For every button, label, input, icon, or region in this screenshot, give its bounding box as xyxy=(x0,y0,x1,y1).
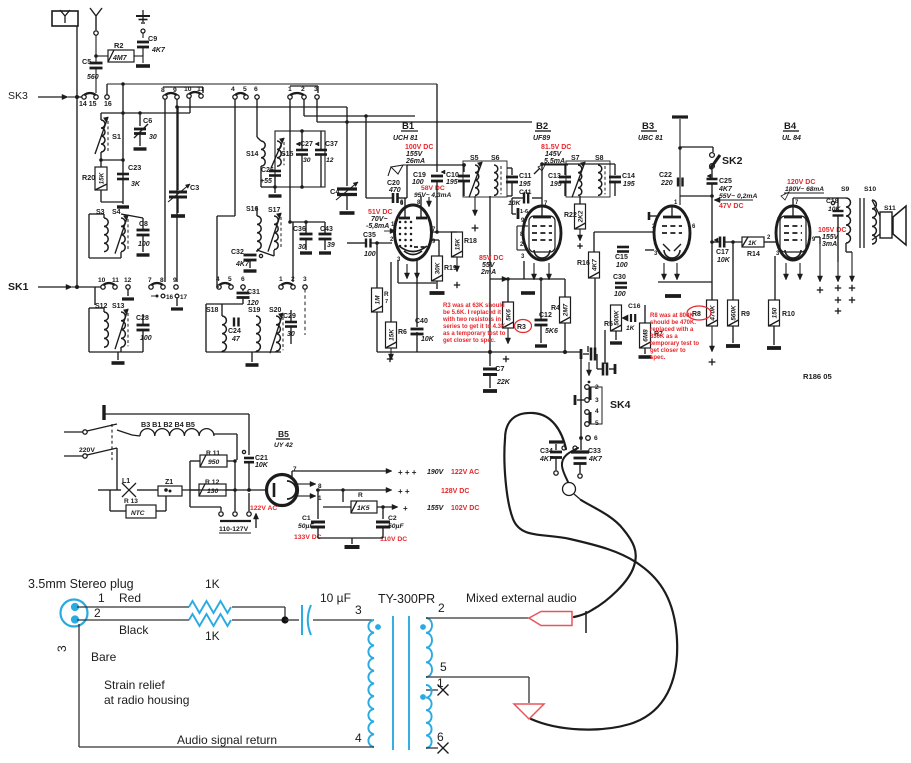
plug left down wire xyxy=(78,624,80,747)
capacitor C23 3K xyxy=(117,173,129,176)
svg-text:95V~ 4,3mA: 95V~ 4,3mA xyxy=(414,192,451,199)
svg-text:R20: R20 xyxy=(82,173,95,182)
svg-text:R3 was at 63K should: R3 was at 63K should xyxy=(443,303,505,309)
svg-text:470: 470 xyxy=(388,187,401,194)
wire pin2 xyxy=(77,619,189,621)
coil S1 xyxy=(100,113,102,120)
power ground xyxy=(318,537,383,539)
ground under B3 xyxy=(665,294,681,298)
svg-text:S11: S11 xyxy=(884,205,896,212)
mains plug bar xyxy=(102,405,105,420)
svg-text:145V: 145V xyxy=(545,151,563,158)
wire B2 plate top xyxy=(541,164,543,206)
wire y165 xyxy=(407,164,464,166)
resistor R12 130 xyxy=(199,484,226,496)
SK4 contact 6 xyxy=(579,436,583,440)
ground under C23 xyxy=(122,202,124,204)
svg-text:102V DC: 102V DC xyxy=(451,505,479,512)
svg-text:1K: 1K xyxy=(205,629,220,643)
tube B3 xyxy=(654,206,690,260)
antenna symbol A1 xyxy=(90,8,102,30)
svg-text:110V DC: 110V DC xyxy=(380,536,407,543)
ground under B2 xyxy=(521,291,535,295)
wire x165 down xyxy=(164,99,166,282)
svg-text:C24: C24 xyxy=(228,328,241,335)
svg-text:SK1: SK1 xyxy=(8,281,29,293)
resistor R11 950 xyxy=(200,455,227,467)
svg-text:5K6: 5K6 xyxy=(545,328,558,335)
SK4 arrow small xyxy=(588,362,590,372)
wire contact16 to top bus xyxy=(106,84,108,95)
resistor R19 33K xyxy=(432,256,443,281)
svg-text:3: 3 xyxy=(595,397,599,404)
contacts 16 17 xyxy=(161,294,165,298)
ground under S13 xyxy=(117,352,119,360)
svg-text:C33: C33 xyxy=(588,448,601,455)
svg-text:C41: C41 xyxy=(519,189,532,196)
B5 outputs xyxy=(298,483,312,485)
svg-text:195: 195 xyxy=(623,181,635,188)
capacitor C9 4K7 xyxy=(141,29,145,33)
svg-text:+: + xyxy=(403,504,408,513)
svg-text:1K: 1K xyxy=(205,577,220,591)
svg-text:C1: C1 xyxy=(302,515,311,522)
tube B1 xyxy=(395,205,432,260)
svg-text:195: 195 xyxy=(446,179,458,186)
svg-text:S1: S1 xyxy=(112,132,121,141)
svg-text:39: 39 xyxy=(327,242,335,249)
antenna terminal box xyxy=(52,11,78,26)
svg-text:R6: R6 xyxy=(398,329,407,336)
svg-text:15K: 15K xyxy=(455,238,462,250)
svg-text:330K as a: 330K as a xyxy=(650,334,678,340)
switch SK4 cap2 xyxy=(602,363,605,376)
svg-text:C6: C6 xyxy=(143,116,152,125)
svg-text:4M7: 4M7 xyxy=(112,55,128,62)
svg-text:at radio housing: at radio housing xyxy=(104,693,189,707)
svg-text:C30: C30 xyxy=(613,274,626,281)
microphone symbol xyxy=(563,483,576,496)
resistor R9 560K xyxy=(728,300,739,326)
transformer primary coil xyxy=(368,620,374,747)
svg-text:5: 5 xyxy=(243,86,247,93)
wire S6 down long xyxy=(489,196,491,352)
svg-text:C34: C34 xyxy=(540,448,553,455)
wire B1 plate top xyxy=(406,198,408,204)
svg-text:TY-300PR: TY-300PR xyxy=(378,592,435,606)
svg-text:temporary test to: temporary test to xyxy=(650,341,699,347)
svg-text:1M: 1M xyxy=(375,295,382,305)
top bus y84 xyxy=(107,83,437,85)
tube B1 dot grid xyxy=(399,221,402,224)
svg-text:12: 12 xyxy=(326,157,334,164)
contact 3 dashed wire xyxy=(303,285,307,289)
svg-text:560: 560 xyxy=(87,74,99,81)
wire from contacts 456 down xyxy=(234,99,236,216)
svg-text:8: 8 xyxy=(161,87,165,94)
svg-text:R 12: R 12 xyxy=(205,479,220,486)
capacitor C30 100 xyxy=(615,282,627,285)
svg-text:C16: C16 xyxy=(628,303,641,310)
svg-text:C15: C15 xyxy=(615,254,628,261)
svg-text:S13: S13 xyxy=(112,303,125,310)
rail ++ 128V xyxy=(316,489,370,491)
resistor R22 2K2 xyxy=(575,204,586,229)
svg-text:4K7: 4K7 xyxy=(592,259,599,272)
svg-text:1: 1 xyxy=(288,86,292,93)
svg-text:7: 7 xyxy=(293,466,297,473)
svg-text:S20: S20 xyxy=(269,307,282,314)
svg-text:C32: C32 xyxy=(231,249,244,256)
svg-text:get closer to spec.: get closer to spec. xyxy=(443,338,496,344)
svg-text:5: 5 xyxy=(228,276,232,283)
svg-text:6: 6 xyxy=(594,435,598,442)
svg-text:S9: S9 xyxy=(841,186,850,193)
capacitor C29 30 xyxy=(285,321,297,324)
svg-text:R3: R3 xyxy=(517,324,526,331)
svg-text:9: 9 xyxy=(173,277,177,284)
resistor R7 6M8 xyxy=(640,323,651,348)
svg-text:C35: C35 xyxy=(363,232,376,239)
svg-text:85V DC: 85V DC xyxy=(479,255,504,262)
svg-text:R10: R10 xyxy=(782,311,795,318)
right arrows down xyxy=(819,244,821,278)
svg-text:S14: S14 xyxy=(246,151,259,158)
wire B2 cathode bus y279 xyxy=(490,278,565,280)
svg-text:2K2: 2K2 xyxy=(578,210,585,223)
resistor R8 470K xyxy=(707,300,718,326)
svg-text:5K6: 5K6 xyxy=(506,309,513,321)
rectifier tube B5 xyxy=(267,475,298,506)
SK4 bracket xyxy=(589,387,602,424)
tube B2 xyxy=(523,206,561,260)
wire y113 bus xyxy=(101,112,190,114)
svg-text:R: R xyxy=(358,492,363,499)
pointer wedge B1 xyxy=(391,165,403,174)
junction dot xyxy=(284,607,286,620)
svg-text:55V: 55V xyxy=(482,262,496,269)
svg-text:R18: R18 xyxy=(464,238,477,245)
svg-text:4K7: 4K7 xyxy=(235,261,250,268)
capacitor C2 50uF xyxy=(382,507,384,519)
capacitor C21 10K xyxy=(248,414,250,455)
wire y122 bus to B1 grid xyxy=(317,121,532,123)
svg-text:with two resistors in: with two resistors in xyxy=(442,317,501,323)
tube B1 heater arrows xyxy=(406,264,408,275)
wire y116 mid bus xyxy=(304,115,415,117)
svg-text:120: 120 xyxy=(247,300,259,307)
wire bus x437 down xyxy=(436,84,438,165)
wire S5 bottom arrow xyxy=(474,196,476,212)
capacitor C12 5K6 xyxy=(535,319,548,322)
svg-text:10K: 10K xyxy=(421,336,435,343)
svg-text:R4: R4 xyxy=(551,305,560,312)
svg-text:should be 470K.: should be 470K. xyxy=(650,320,696,326)
switch contacts 14 15 xyxy=(77,96,82,98)
speaker xyxy=(880,212,892,238)
svg-text:C36: C36 xyxy=(293,226,306,233)
svg-text:3: 3 xyxy=(355,603,362,617)
capacitor C15 100 xyxy=(617,246,629,249)
svg-text:1K5: 1K5 xyxy=(357,505,370,512)
svg-text:17: 17 xyxy=(180,294,188,301)
svg-text:14 15: 14 15 xyxy=(79,101,97,108)
red ground triangle xyxy=(514,704,544,719)
svg-text:C19: C19 xyxy=(413,172,426,179)
svg-text:Bare: Bare xyxy=(91,650,117,664)
svg-text:S17: S17 xyxy=(268,207,281,214)
svg-text:15K: 15K xyxy=(389,329,396,341)
svg-text:100: 100 xyxy=(616,262,628,269)
tube B1 cathode arcs xyxy=(399,246,427,252)
wire B3 bottom to R8 xyxy=(658,281,712,283)
svg-text:15K: 15K xyxy=(99,172,106,184)
svg-text:16: 16 xyxy=(166,294,174,301)
svg-text:10K: 10K xyxy=(508,200,522,207)
svg-text:6: 6 xyxy=(241,276,245,283)
svg-text:C11: C11 xyxy=(519,173,532,180)
svg-text:7: 7 xyxy=(385,299,388,305)
svg-text:58V DC: 58V DC xyxy=(421,185,445,192)
svg-text:NTC: NTC xyxy=(131,510,145,517)
resistor R6 15K xyxy=(386,322,397,348)
svg-text:C31: C31 xyxy=(247,289,260,296)
wire left edge x352 xyxy=(347,242,352,244)
svg-text:C22: C22 xyxy=(659,172,672,179)
capacitor C5 560 xyxy=(90,62,103,65)
black tick xyxy=(585,611,587,633)
svg-text:SK2: SK2 xyxy=(722,155,743,167)
svg-text:+ + +: + + + xyxy=(398,468,417,477)
svg-text:R2: R2 xyxy=(114,41,123,50)
svg-text:spec.: spec. xyxy=(650,355,666,361)
wire antenna to C5 xyxy=(95,35,97,62)
svg-text:R: R xyxy=(384,291,389,298)
wire pin1 xyxy=(77,606,189,608)
capacitor C31 120 xyxy=(242,289,244,291)
svg-text:100: 100 xyxy=(614,291,626,298)
svg-text:S18: S18 xyxy=(206,307,219,314)
svg-text:UBC 81: UBC 81 xyxy=(638,135,663,142)
tube B4 heater arrows xyxy=(785,263,787,276)
svg-text:UF89: UF89 xyxy=(533,135,550,142)
wire R1K5 to ++ rail xyxy=(342,490,344,502)
variable capacitor C3 xyxy=(177,107,179,190)
capacitor C34 4K7 xyxy=(549,440,563,443)
svg-text:C21: C21 xyxy=(255,455,268,462)
svg-text:1K: 1K xyxy=(748,240,758,247)
capacitor C6 30 variable xyxy=(139,113,141,126)
svg-text:+55: +55 xyxy=(260,178,272,185)
speaker coil S11 xyxy=(872,200,876,244)
svg-text:3.5mm Stereo plug: 3.5mm Stereo plug xyxy=(28,577,134,591)
svg-text:S4: S4 xyxy=(112,209,121,216)
svg-text:C10: C10 xyxy=(446,172,459,179)
wire B1 cathode to C40 xyxy=(416,260,418,310)
svg-text:950: 950 xyxy=(208,459,220,466)
svg-text:Audio signal return: Audio signal return xyxy=(177,733,277,747)
wire B3 to R16 top xyxy=(594,231,654,233)
svg-text:Mixed external audio: Mixed external audio xyxy=(466,591,577,605)
svg-text:C3: C3 xyxy=(190,183,199,192)
tube B3 grid bar left xyxy=(648,212,651,220)
resistor R20 15K xyxy=(100,160,102,167)
svg-text:4K7: 4K7 xyxy=(588,456,603,463)
pointer wedge B4 xyxy=(781,192,789,200)
svg-text:560K: 560K xyxy=(731,305,738,321)
capacitor C24 47 xyxy=(233,318,235,327)
svg-text:UY 42: UY 42 xyxy=(274,442,293,449)
wire R9 feed xyxy=(732,242,734,300)
wire to C36 C43 tops xyxy=(290,221,325,223)
svg-text:C37: C37 xyxy=(325,141,338,148)
svg-text:S6: S6 xyxy=(491,155,500,162)
wire SK2 down to R8 node xyxy=(711,184,713,300)
svg-text:Red: Red xyxy=(119,591,141,605)
svg-text:2mA: 2mA xyxy=(480,269,496,276)
resistor R4 2M7 xyxy=(560,297,571,323)
svg-text:R 13: R 13 xyxy=(124,498,138,505)
contact 16 xyxy=(105,95,109,99)
svg-text:R186 05: R186 05 xyxy=(803,372,832,381)
svg-text:C5: C5 xyxy=(82,57,91,66)
IF can S5 S6 box xyxy=(463,161,507,197)
wire x293 down xyxy=(292,222,294,282)
svg-text:2: 2 xyxy=(438,601,445,615)
svg-text:2: 2 xyxy=(291,276,295,283)
svg-text:4K7: 4K7 xyxy=(539,456,554,463)
svg-text:3: 3 xyxy=(303,276,307,283)
resistor R14 1K xyxy=(742,237,764,247)
SK4 contacts xyxy=(585,385,590,390)
tube B1 dash row xyxy=(414,246,430,248)
svg-text:6M8: 6M8 xyxy=(643,329,650,342)
B3 plate cap bar xyxy=(672,115,688,118)
svg-text:UL 84: UL 84 xyxy=(782,135,801,142)
mains switch xyxy=(83,430,87,434)
svg-text:replaced with a: replaced with a xyxy=(650,327,694,333)
svg-text:S15: S15 xyxy=(281,151,294,158)
svg-text:4: 4 xyxy=(231,86,235,93)
svg-text:180V~ 68mA: 180V~ 68mA xyxy=(785,186,824,193)
tube B2 grid rect xyxy=(516,226,518,250)
svg-text:30: 30 xyxy=(149,134,157,141)
ground under S19 xyxy=(251,352,253,362)
wire x123 down xyxy=(122,84,124,113)
svg-text:R5: R5 xyxy=(604,321,613,328)
svg-text:155V: 155V xyxy=(427,505,445,512)
svg-text:47V DC: 47V DC xyxy=(719,203,744,210)
svg-text:R16: R16 xyxy=(577,260,590,267)
svg-text:B3 B1 B2 B4 B5: B3 B1 B2 B4 B5 xyxy=(141,420,195,429)
svg-text:10K: 10K xyxy=(717,257,731,264)
svg-text:1: 1 xyxy=(98,591,105,605)
svg-text:220: 220 xyxy=(660,180,673,187)
IF transformer S7 S8 box xyxy=(566,161,610,197)
svg-text:S8: S8 xyxy=(595,155,604,162)
svg-text:100V DC: 100V DC xyxy=(405,144,433,151)
svg-text:100: 100 xyxy=(364,251,376,258)
resistor R1 1M xyxy=(376,243,378,288)
resistor R 1K5 xyxy=(351,501,377,513)
transformer core xyxy=(392,616,394,750)
tube B1 anode bars xyxy=(399,217,410,220)
svg-text:1: 1 xyxy=(279,276,283,283)
wire pin5 to ground xyxy=(426,676,529,678)
svg-text:Z1: Z1 xyxy=(165,479,173,486)
svg-text:22K: 22K xyxy=(496,379,511,386)
svg-text:3: 3 xyxy=(55,645,69,652)
svg-text:50µF: 50µF xyxy=(298,523,314,530)
wire B4 plate to S9 xyxy=(792,198,794,206)
capacitor C11 195 xyxy=(507,167,512,169)
capacitor C1 50uF xyxy=(317,490,319,519)
node S1 bottom xyxy=(101,159,123,161)
svg-text:R 11: R 11 xyxy=(206,450,220,457)
primary bottom connect xyxy=(377,749,379,751)
svg-text:3mA: 3mA xyxy=(822,241,837,248)
svg-text:12: 12 xyxy=(124,277,132,284)
svg-text:S7: S7 xyxy=(571,155,580,162)
label 110-127V xyxy=(220,520,251,522)
svg-text:500K: 500K xyxy=(614,310,621,326)
svg-text:1K: 1K xyxy=(626,325,636,332)
svg-text:S19: S19 xyxy=(248,307,261,314)
svg-text:100: 100 xyxy=(138,241,150,248)
svg-text:C9: C9 xyxy=(148,34,157,43)
svg-text:122V AC: 122V AC xyxy=(250,505,277,512)
svg-text:as a temporary test to: as a temporary test to xyxy=(443,331,506,337)
switch SK2 xyxy=(710,153,715,158)
wire x366 from y116 xyxy=(365,116,367,198)
svg-text:C29: C29 xyxy=(283,313,296,320)
svg-text:4: 4 xyxy=(595,408,599,415)
svg-text:122V AC: 122V AC xyxy=(451,469,479,476)
wires from 123 down xyxy=(303,99,305,116)
svg-text:50µF: 50µF xyxy=(388,523,404,530)
wire B1 pin3 down xyxy=(397,260,399,283)
wire y107 bus xyxy=(176,99,178,107)
svg-text:3K: 3K xyxy=(131,181,141,188)
wire B3 y196 xyxy=(680,195,712,197)
tube B4 xyxy=(776,206,810,260)
svg-text:C25: C25 xyxy=(719,178,732,185)
transformer secondary top xyxy=(426,618,432,677)
SK4 wire down x588 xyxy=(587,346,589,352)
svg-text:C7: C7 xyxy=(495,364,504,373)
svg-text:R9: R9 xyxy=(741,311,750,318)
svg-text:26mA: 26mA xyxy=(405,158,425,165)
small arrow pin8 xyxy=(428,197,430,203)
svg-text:110-127V: 110-127V xyxy=(219,526,249,533)
wire SK1 row to S12 xyxy=(94,287,96,305)
pointer wedge B2 xyxy=(538,163,546,171)
resistor R16 4K7 xyxy=(589,252,600,278)
svg-text:be 5.6K. I replaced it: be 5.6K. I replaced it xyxy=(443,310,501,316)
svg-text:S12: S12 xyxy=(95,303,108,310)
svg-text:C2: C2 xyxy=(388,515,397,522)
box around S15 C27 C37 xyxy=(275,131,325,187)
svg-text:C14: C14 xyxy=(622,173,635,180)
svg-text:C17: C17 xyxy=(716,249,729,256)
wire mid 490 xyxy=(116,448,118,490)
svg-text:R8 was at 800K: R8 was at 800K xyxy=(650,313,694,319)
plus marks right xyxy=(817,289,823,291)
svg-text:R22: R22 xyxy=(564,212,577,219)
svg-text:1-6: 1-6 xyxy=(520,209,528,215)
wire left of 4 xyxy=(217,286,219,288)
resistor R5 500K xyxy=(611,305,622,331)
